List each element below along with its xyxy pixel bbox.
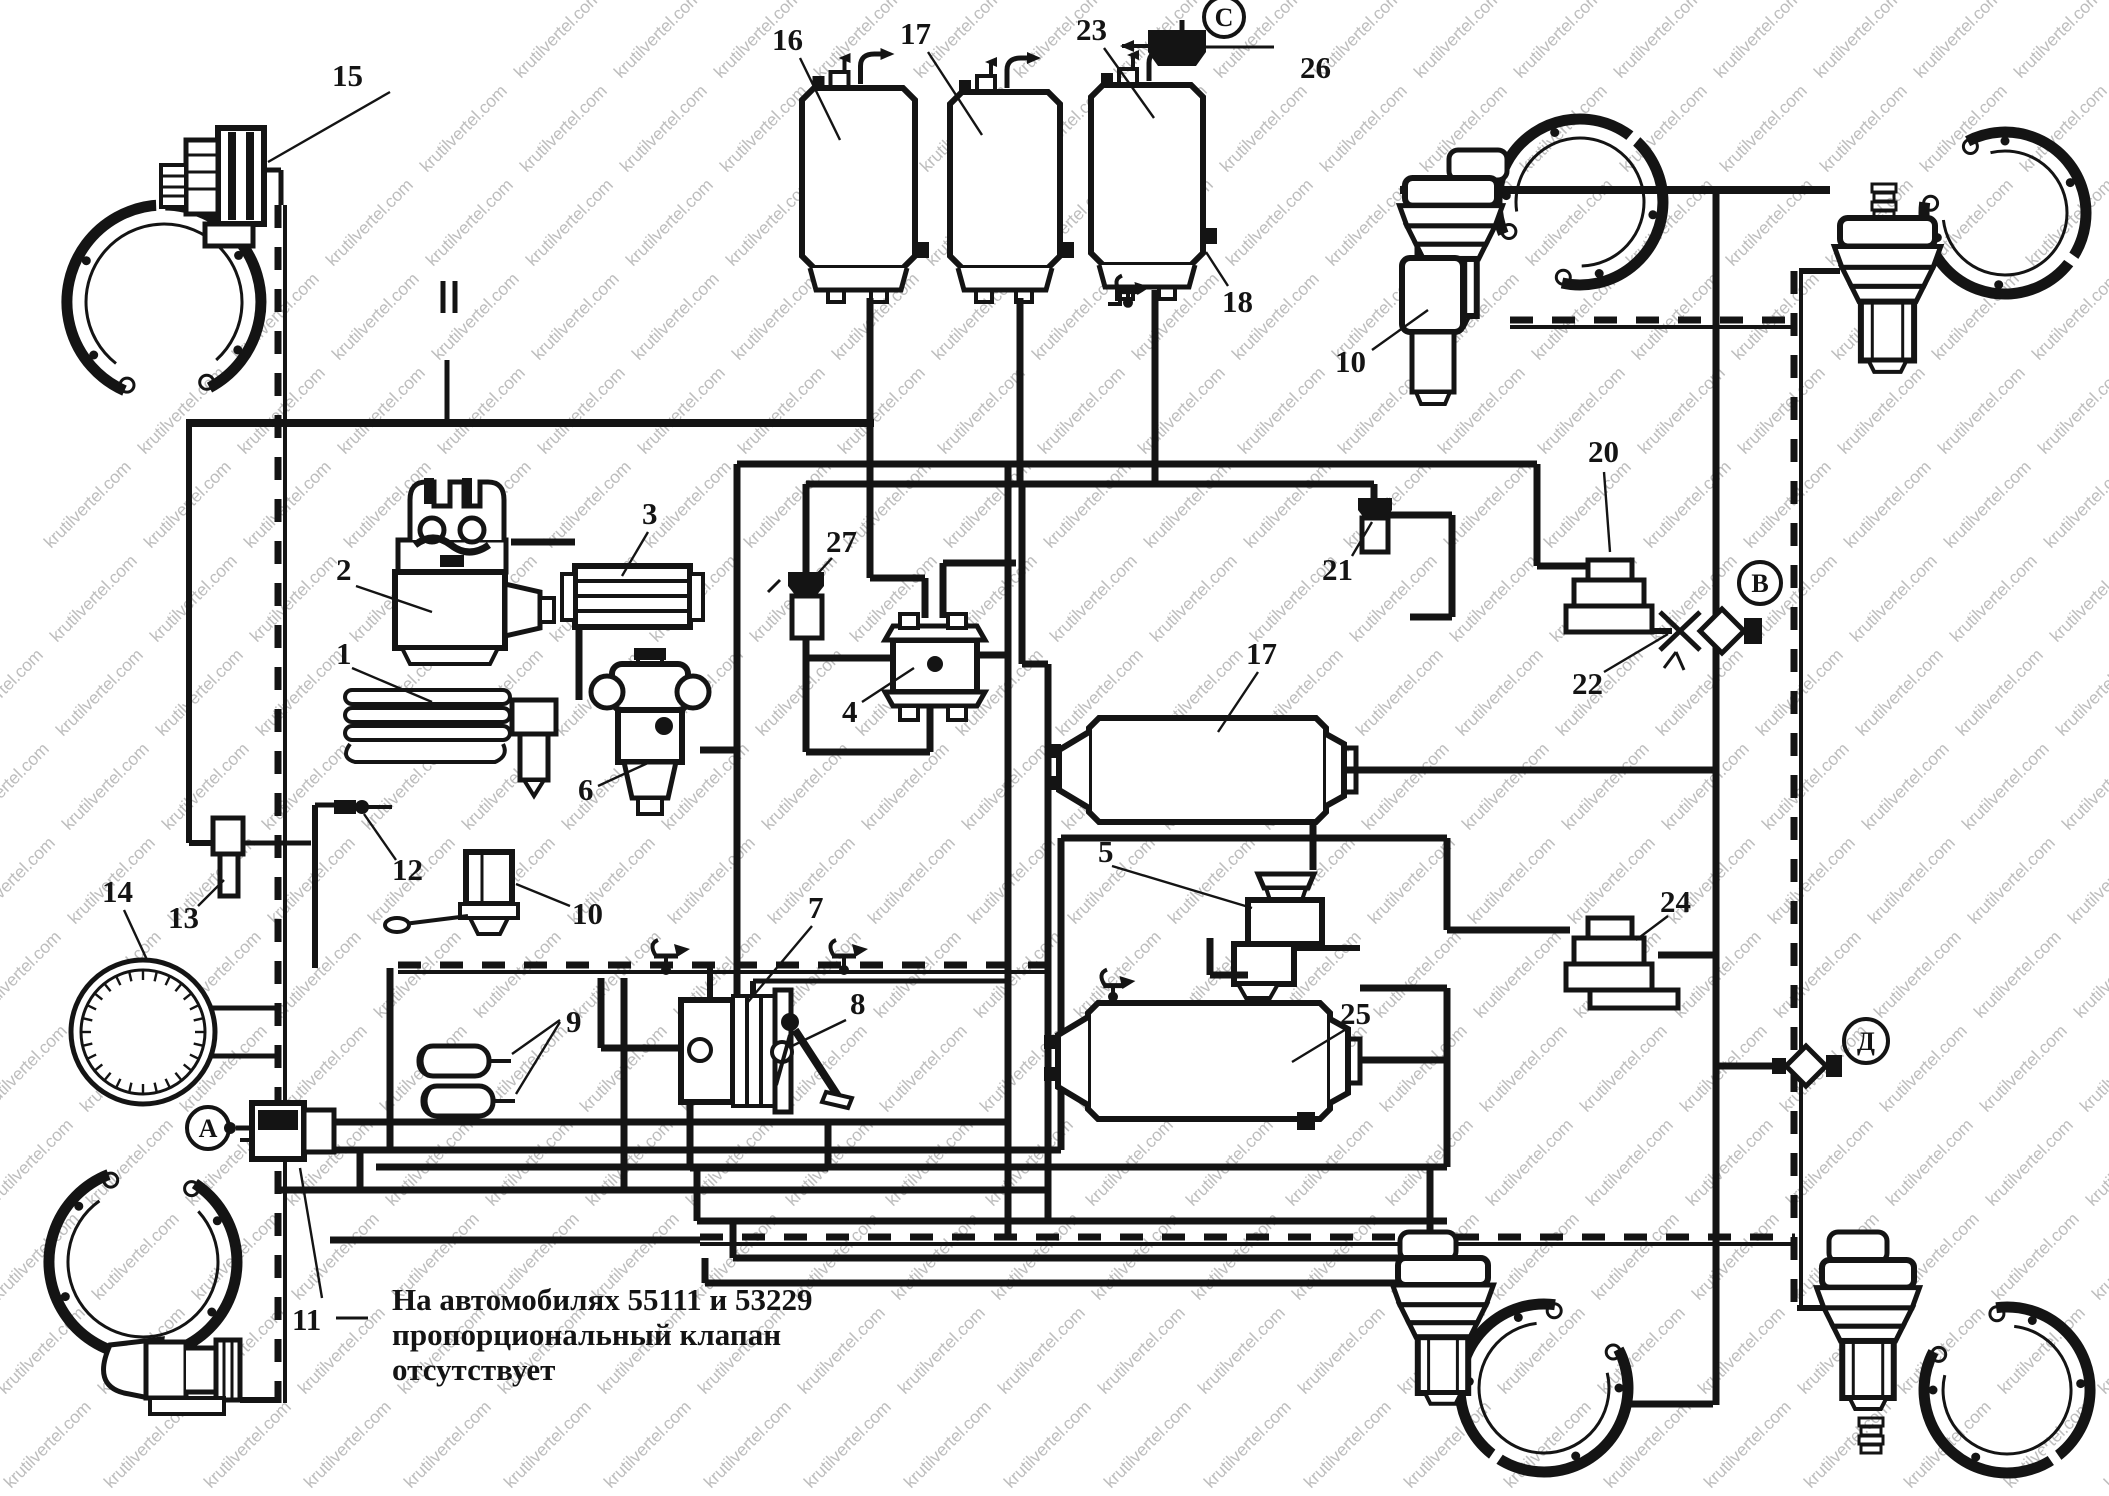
svg-text:пропорциональный клапан: пропорциональный клапан [392, 1317, 781, 1352]
svg-text:9: 9 [566, 1004, 582, 1039]
svg-text:C: C [1215, 3, 1234, 32]
svg-text:4: 4 [842, 694, 858, 729]
svg-text:15: 15 [332, 58, 363, 93]
svg-text:22: 22 [1572, 666, 1603, 701]
svg-text:8: 8 [850, 986, 866, 1021]
svg-text:2: 2 [336, 552, 352, 587]
svg-text:13: 13 [168, 900, 199, 935]
svg-text:10: 10 [572, 896, 603, 931]
svg-text:27: 27 [826, 524, 857, 559]
svg-text:20: 20 [1588, 434, 1619, 469]
svg-text:12: 12 [392, 852, 423, 887]
svg-text:1: 1 [336, 636, 352, 671]
svg-text:16: 16 [772, 22, 803, 57]
svg-text:17: 17 [1246, 636, 1277, 671]
svg-text:18: 18 [1222, 284, 1253, 319]
svg-text:3: 3 [642, 496, 658, 531]
svg-text:24: 24 [1660, 884, 1691, 919]
svg-text:В: В [1751, 569, 1768, 598]
svg-text:11: 11 [292, 1302, 321, 1337]
svg-text:17: 17 [900, 16, 931, 51]
svg-text:6: 6 [578, 772, 594, 807]
svg-text:10: 10 [1335, 344, 1366, 379]
svg-text:25: 25 [1340, 996, 1371, 1031]
svg-text:На автомобилях 55111 и 53229: На автомобилях 55111 и 53229 [392, 1282, 812, 1317]
svg-text:14: 14 [102, 874, 133, 909]
svg-text:А: А [199, 1114, 218, 1143]
svg-text:5: 5 [1098, 834, 1114, 869]
svg-text:26: 26 [1300, 50, 1331, 85]
svg-text:21: 21 [1322, 552, 1353, 587]
svg-text:7: 7 [808, 890, 824, 925]
svg-text:отсутствует: отсутствует [392, 1352, 555, 1387]
svg-text:Д: Д [1857, 1027, 1875, 1056]
svg-text:23: 23 [1076, 12, 1107, 47]
